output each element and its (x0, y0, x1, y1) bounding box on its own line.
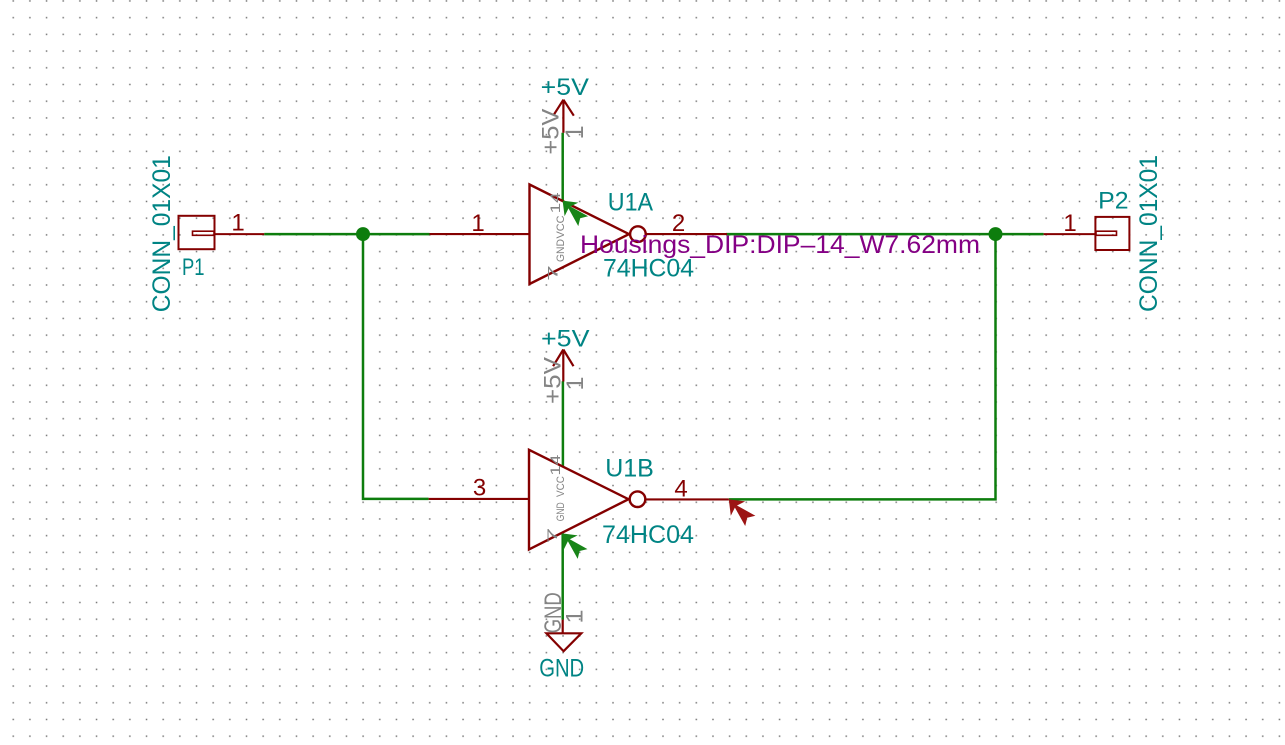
connector P1 body (179, 216, 265, 249)
svg-text:1: 1 (231, 210, 244, 237)
svg-text:VCC: VCC (555, 215, 567, 238)
svg-text:GND: GND (539, 654, 584, 682)
svg-text:P1: P1 (182, 254, 205, 281)
ERC marker at U1A pin14 (green) (563, 201, 589, 227)
svg-text:P2: P2 (1098, 187, 1128, 214)
svg-text:CONN_01X01: CONN_01X01 (1135, 155, 1163, 312)
svg-text:7: 7 (545, 528, 560, 544)
svg-text:U1B: U1B (605, 455, 654, 483)
svg-text:Housings_DIP:DIP–14_W7.62mm: Housings_DIP:DIP–14_W7.62mm (580, 231, 980, 259)
svg-text:1: 1 (471, 210, 484, 237)
inverter U1A body (530, 185, 646, 285)
svg-text:74HC04: 74HC04 (602, 521, 694, 549)
svg-text:CONN_01X01: CONN_01X01 (148, 155, 176, 312)
power symbol GND (546, 620, 581, 652)
U1A pin 1 (430, 233, 530, 235)
ERC marker at U1B pin4 (red) (729, 499, 756, 526)
svg-text:1: 1 (561, 125, 589, 139)
U1B pin 4 (645, 498, 729, 500)
wire net-out: U1A pin2 to right junction (726, 233, 1044, 236)
wire +5V to U1B pin14 (562, 381, 565, 467)
junction right (989, 227, 1003, 241)
ERC marker at U1B pin7 (green) (562, 533, 588, 559)
wire net-in: P1 to U1A pin1 (264, 233, 429, 236)
wire +5V top to U1A pin14 (561, 133, 564, 201)
svg-text:U1A: U1A (608, 189, 654, 217)
connector P2 body (1044, 217, 1130, 250)
power symbol +5V (top) (553, 100, 574, 133)
wire net-in vertical: junction down to lower rail (363, 234, 429, 499)
svg-text:VCC: VCC (555, 476, 567, 497)
svg-text:GND: GND (555, 239, 567, 262)
svg-text:14: 14 (548, 454, 563, 476)
U1A pin 2 (646, 233, 727, 235)
wire U1B pin7 to GND (561, 533, 564, 619)
svg-text:+5V: +5V (541, 326, 590, 353)
svg-text:14: 14 (548, 192, 563, 214)
svg-text:1: 1 (562, 610, 589, 624)
svg-text:1: 1 (562, 377, 589, 391)
power symbol +5V (middle) (553, 350, 573, 382)
svg-text:3: 3 (473, 474, 486, 501)
junction left (356, 227, 370, 241)
U1B pin 3 (429, 498, 529, 500)
svg-text:1: 1 (1063, 210, 1076, 237)
wire net-out vertical: right junction down and left to U1B pin4 (729, 234, 996, 499)
svg-text:GND: GND (555, 502, 567, 521)
inverter U1B body (529, 450, 645, 550)
svg-text:7: 7 (546, 265, 561, 281)
svg-text:4: 4 (674, 476, 687, 503)
svg-text:+5V: +5V (541, 74, 589, 101)
